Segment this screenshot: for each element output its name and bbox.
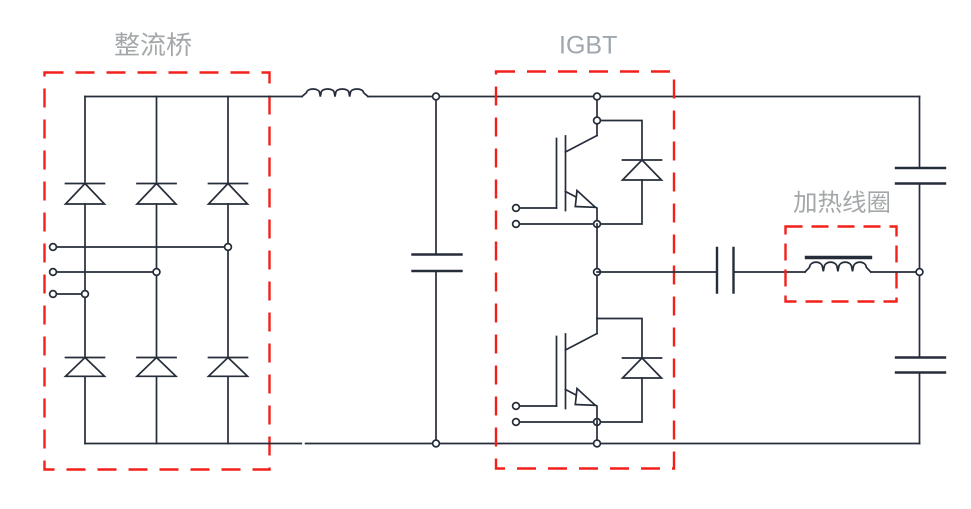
node Q1 emitter junction: [594, 221, 601, 228]
wire top bus left segment: [85, 96, 302, 98]
wire rectifier leg 1: [84, 97, 86, 444]
wire Q1 emitter diagonal: [566, 192, 598, 225]
wire Q2 gate lead: [519, 405, 556, 407]
wire top bus right segment: [368, 96, 920, 98]
diode D6 (bottom row): [209, 358, 248, 377]
wire DC link drop: [435, 97, 437, 444]
capacitor C2 (series resonant): [717, 248, 734, 293]
label 加热线圈: [794, 190, 889, 213]
wire rectifier leg 3: [227, 97, 229, 444]
wire AC input phase 1: [56, 246, 228, 248]
wire Q2 emitter diagonal: [566, 390, 598, 423]
diode D5 (bottom row): [137, 358, 176, 377]
transistor Q2 wires: collector stem: [596, 272, 598, 334]
label 整流桥: [115, 32, 191, 56]
diode D7 (freewheel): [623, 160, 662, 180]
node Q1 collector: [594, 117, 601, 124]
terminal AC input 1: [50, 244, 57, 251]
terminal AC input 3: [50, 291, 57, 298]
wire bottom bus: [85, 443, 920, 445]
wire Q1 emitter to midpoint: [596, 224, 598, 272]
terminal AC input 2: [50, 269, 57, 276]
wire Q2 collector diagonal: [566, 334, 598, 351]
wire midpoint to series capacitor: [597, 271, 717, 273]
capacitor C4 (resonant bottom): [896, 358, 945, 373]
diode D4 (bottom row): [66, 358, 105, 377]
node right rail output junction: [916, 269, 923, 276]
arrow Q2 emitter: [575, 389, 595, 406]
svg-text:IGBT: IGBT: [559, 32, 617, 60]
wire Q1 collector diagonal: [566, 136, 598, 153]
node top bus IGBT junction: [594, 93, 601, 100]
capacitor C1 (DC link): [413, 255, 462, 272]
wire rectifier leg 2: [156, 97, 158, 444]
terminal Q1 gate: [513, 205, 520, 212]
arrow Q1 emitter: [575, 191, 595, 208]
rectifier dashed box 整流桥: [45, 73, 270, 470]
heating coil dashed box 加热线圈: [786, 227, 897, 302]
node Q2 emitter junction: [594, 419, 601, 426]
node phase3-leg1 junction: [82, 291, 89, 298]
node DC link bottom: [433, 440, 440, 447]
node bottom bus IGBT junction: [594, 440, 601, 447]
diode D3 (top row): [209, 184, 248, 205]
wire Q1 emitter rail: [519, 223, 597, 225]
wire Q2 emitter rail: [519, 421, 597, 423]
node DC link top: [433, 93, 440, 100]
wire right rail top: [919, 97, 921, 444]
diode D1 (top row): [66, 184, 105, 205]
diode D Q1 freewheel branch wires: [597, 121, 642, 225]
wire AC input phase 2: [56, 271, 156, 273]
transistor Q1 wires: collector stem: [596, 97, 598, 136]
inductor L2 heating coil windings: [805, 262, 871, 272]
diode D2 (top row): [137, 184, 176, 205]
diode D Q2 freewheel branch wires: [597, 319, 642, 423]
transistor Q1 gate bars: [557, 136, 566, 211]
wire coil to right rail: [871, 271, 920, 273]
inductor L2 heating coil core bar: [807, 256, 871, 259]
terminal Q1 emitter: [513, 221, 520, 228]
node phase1-leg3 junction: [225, 244, 232, 251]
node phase2-leg2 junction: [153, 269, 160, 276]
wire AC input phase 3: [56, 293, 85, 295]
node midpoint output: [594, 269, 601, 276]
IGBT dashed box: [496, 72, 674, 469]
inductor L1: [302, 89, 368, 97]
terminal Q2 gate: [513, 403, 520, 410]
wire series cap to coil: [734, 271, 806, 273]
capacitor C3 (resonant top): [896, 168, 945, 184]
transistor Q2 gate bars: [557, 334, 566, 409]
wire Q2 emitter to bottom bus: [596, 421, 598, 444]
diode D8 (freewheel): [623, 358, 662, 378]
wire Q1 gate lead: [519, 207, 556, 209]
terminal Q2 emitter: [513, 419, 520, 426]
